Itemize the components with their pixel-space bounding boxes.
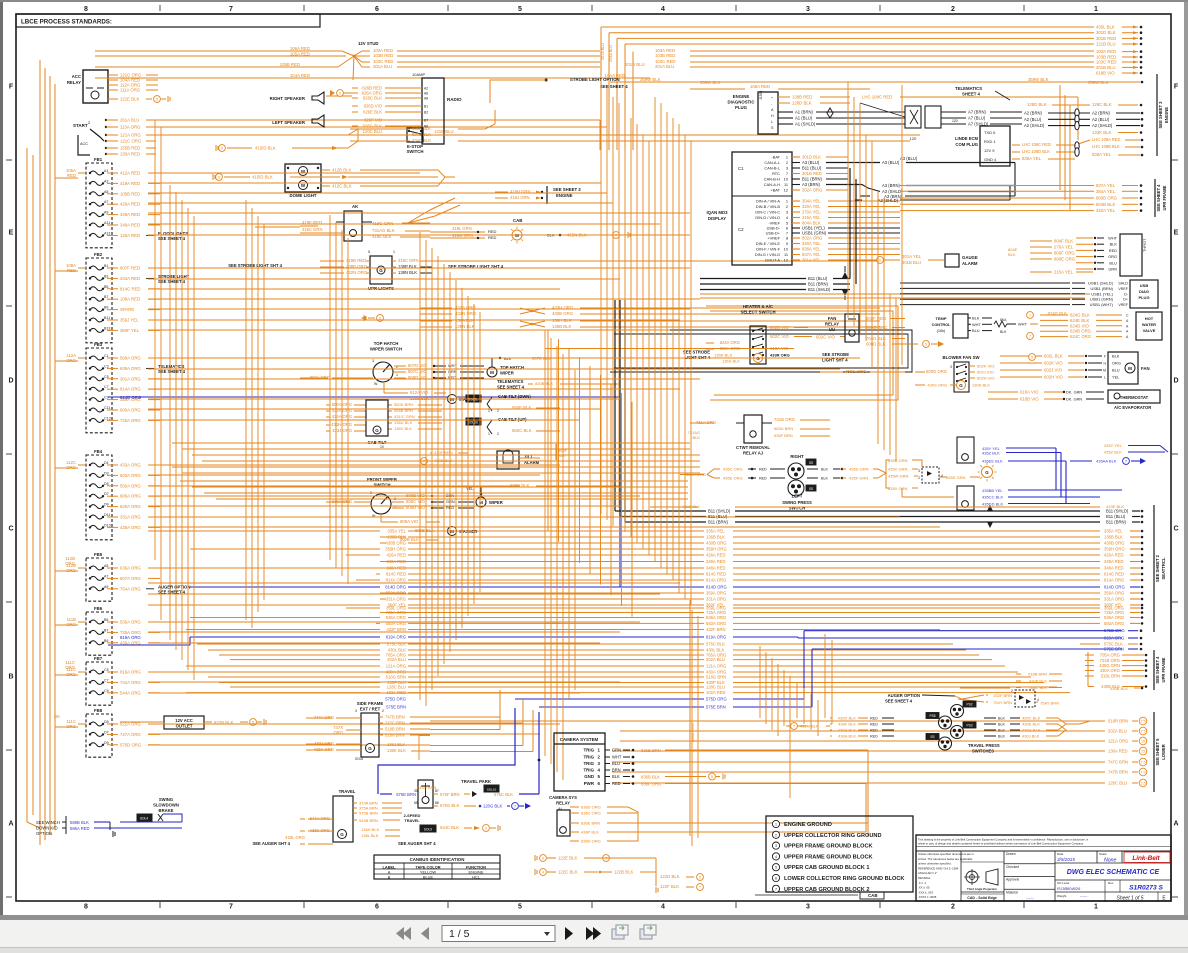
svg-text:LHC 108C RED: LHC 108C RED <box>1022 142 1051 147</box>
svg-text:A2 (BRN): A2 (BRN) <box>1092 111 1111 116</box>
svg-text:C11: C11 <box>104 406 110 410</box>
svg-text:419E BLK: 419E BLK <box>1106 504 1124 509</box>
svg-text:432F BRN: 432F BRN <box>386 627 406 632</box>
svg-text:430G BLK: 430G BLK <box>1022 728 1041 733</box>
svg-text:------: ------ <box>1026 896 1034 900</box>
svg-text:12V 9: 12V 9 <box>984 148 995 153</box>
svg-text:3: 3 <box>918 469 920 473</box>
svg-text:SEE SHEET 5: SEE SHEET 5 <box>1155 738 1160 766</box>
svg-text:106A RED: 106A RED <box>290 46 310 51</box>
svg-text:C3: C3 <box>104 364 109 368</box>
svg-text:UPR FRAME: UPR FRAME <box>1161 657 1166 682</box>
svg-text:GRN: GRN <box>612 748 621 753</box>
svg-text:575D ORG: 575D ORG <box>120 742 142 747</box>
svg-text:VREF: VREF <box>1118 287 1128 291</box>
svg-text:836E BRN: 836E BRN <box>641 748 661 753</box>
svg-text:331A ORG: 331A ORG <box>120 515 141 520</box>
svg-text:7: 7 <box>1125 460 1127 464</box>
svg-text:G: G <box>959 383 963 388</box>
svg-text:B7: B7 <box>104 295 108 299</box>
svg-text:261A BLU: 261A BLU <box>120 118 139 123</box>
svg-text:5: 5 <box>218 176 220 180</box>
svg-text:B9: B9 <box>104 639 108 643</box>
svg-text:518R BRN: 518R BRN <box>1108 719 1128 724</box>
svg-text:438P BLK: 438P BLK <box>581 830 599 835</box>
svg-text:518B BRN: 518B BRN <box>1028 672 1047 677</box>
svg-text:BLK: BLK <box>558 453 566 458</box>
svg-text:ALARM: ALARM <box>962 261 978 266</box>
svg-text:ORG: ORG <box>1112 361 1121 366</box>
svg-text:PS3: PS3 <box>966 724 972 728</box>
svg-text:8KA: 8KA <box>1000 318 1007 322</box>
svg-text:754Y BRN: 754Y BRN <box>993 700 1012 705</box>
svg-text:A3 (BRN): A3 (BRN) <box>802 182 821 187</box>
svg-text:731A ORG: 731A ORG <box>120 680 141 685</box>
svg-text:128C BLU: 128C BLU <box>1108 781 1127 786</box>
svg-text:DIN-D / VIN-D: DIN-D / VIN-D <box>755 215 780 220</box>
svg-text:747A ORG: 747A ORG <box>120 732 141 737</box>
svg-text:435F GRN: 435F GRN <box>849 476 868 481</box>
svg-text:602H VIO: 602H VIO <box>977 376 995 381</box>
svg-text:435EE BLK: 435EE BLK <box>982 459 1003 464</box>
svg-text:B11 (BRN): B11 (BRN) <box>802 177 823 182</box>
svg-text:602C VIO: 602C VIO <box>816 335 836 340</box>
svg-text:814C RED: 814C RED <box>706 572 726 577</box>
svg-text:BLK: BLK <box>1110 242 1118 247</box>
svg-text:CAN-B-L: CAN-B-L <box>764 166 780 171</box>
svg-text:BRAKE: BRAKE <box>159 808 174 813</box>
svg-text:518A BRN: 518A BRN <box>385 733 405 738</box>
svg-text:125A RED: 125A RED <box>120 233 140 238</box>
svg-text:UPPER CAB GROUND BLOCK 1: UPPER CAB GROUND BLOCK 1 <box>784 865 869 871</box>
svg-text:430P BLK: 430P BLK <box>1029 679 1047 684</box>
svg-text:575C BLK: 575C BLK <box>494 792 513 797</box>
svg-text:FB1: FB1 <box>94 157 103 162</box>
svg-text:FB5: FB5 <box>94 552 103 557</box>
svg-text:SEE SHEET 4: SEE SHEET 4 <box>158 236 186 241</box>
svg-text:A2 (BRN): A2 (BRN) <box>1024 111 1043 116</box>
svg-text:SS: SS <box>809 487 813 491</box>
svg-text:DOWN K/O: DOWN K/O <box>36 826 58 831</box>
svg-text:122C BLK: 122C BLK <box>558 870 578 875</box>
svg-text:GRN: GRN <box>448 369 457 374</box>
svg-text:747B BRN: 747B BRN <box>1108 770 1128 775</box>
svg-text:.XXX ± .003: .XXX ± .003 <box>918 890 933 894</box>
svg-text:415/D BLK: 415/D BLK <box>255 146 276 151</box>
svg-text:SOL3U: SOL3U <box>468 421 479 425</box>
svg-text:607E BLK: 607E BLK <box>412 132 431 137</box>
svg-text:128C BLK: 128C BLK <box>1092 102 1112 107</box>
svg-text:136U BLK: 136U BLK <box>394 420 413 425</box>
svg-text:575C BLK: 575C BLK <box>387 642 406 647</box>
svg-text:128D BLK: 128D BLK <box>792 101 812 106</box>
svg-text:2: 2 <box>497 409 499 413</box>
svg-text:838A YEL: 838A YEL <box>802 247 821 252</box>
svg-text:550A ORG: 550A ORG <box>120 483 141 488</box>
svg-text:419L GRN: 419L GRN <box>452 226 472 231</box>
svg-text:B: B <box>388 875 391 880</box>
svg-text:606E BLK: 606E BLK <box>412 126 431 131</box>
svg-text:607A ORG: 607A ORG <box>120 576 141 581</box>
svg-text:ENGINE GROUND: ENGINE GROUND <box>784 822 832 828</box>
svg-text:WHT: WHT <box>1108 236 1117 241</box>
svg-text:838A YEL: 838A YEL <box>1092 152 1112 157</box>
svg-text:15: 15 <box>1141 750 1145 754</box>
svg-text:J1939: J1939 <box>759 91 763 100</box>
svg-text:620A ORG: 620A ORG <box>120 504 141 509</box>
svg-text:SIDE FRAME: SIDE FRAME <box>357 701 384 706</box>
svg-text:+VREF: +VREF <box>767 236 780 241</box>
svg-text:FAN: FAN <box>1141 366 1150 371</box>
svg-text:435AA BLK: 435AA BLK <box>1096 459 1117 464</box>
svg-text:1: 1 <box>1094 904 1098 911</box>
svg-text:430A BLK: 430A BLK <box>838 734 856 739</box>
svg-text:LEFT SPEAKER: LEFT SPEAKER <box>272 120 306 125</box>
svg-text:A3 (BLU): A3 (BLU) <box>900 156 918 161</box>
svg-text:2.5: 2.5 <box>1141 782 1146 786</box>
svg-text:SWITCHES: SWITCHES <box>972 749 994 754</box>
svg-text:636D ORG: 636D ORG <box>581 805 601 810</box>
svg-text:624G BLK: 624G BLK <box>1048 311 1068 316</box>
svg-text:LHC 108D BLK: LHC 108D BLK <box>1022 149 1050 154</box>
svg-text:WHT: WHT <box>972 322 981 327</box>
svg-text:15: 15 <box>1141 740 1145 744</box>
svg-text:6: 6 <box>542 857 544 861</box>
svg-text:202A BLU: 202A BLU <box>1108 729 1127 734</box>
svg-text:LOWER: LOWER <box>1161 744 1166 760</box>
svg-text:SEE SHEET 3: SEE SHEET 3 <box>1158 101 1163 129</box>
svg-text:SPARE: SPARE <box>120 307 134 312</box>
svg-text:348A RED: 348A RED <box>1104 566 1124 571</box>
svg-text:618B VIO: 618B VIO <box>1020 397 1039 402</box>
svg-text:G: G <box>985 470 989 475</box>
svg-text:PWR: PWR <box>584 781 595 786</box>
svg-text:A2: A2 <box>424 87 428 91</box>
svg-text:819A ORG: 819A ORG <box>120 635 141 640</box>
svg-text:435U GRN: 435U GRN <box>888 458 908 463</box>
svg-text:FB7: FB7 <box>94 656 103 661</box>
svg-text:814A ORG: 814A ORG <box>120 387 141 392</box>
svg-text:B: B <box>8 674 13 681</box>
svg-text:838A YEL: 838A YEL <box>1022 156 1042 161</box>
svg-text:CAMERA SYSTEM: CAMERA SYSTEM <box>560 737 599 742</box>
svg-text:536A ORG: 536A ORG <box>120 620 141 625</box>
svg-text:435C ORG: 435C ORG <box>723 467 743 472</box>
svg-text:430B BLK: 430B BLK <box>1110 686 1128 691</box>
svg-text:SWITCH: SWITCH <box>407 149 424 154</box>
svg-text:1: 1 <box>786 155 788 160</box>
svg-text:104A RED: 104A RED <box>290 73 310 78</box>
svg-text:3: 3 <box>786 210 788 215</box>
svg-text:CTWT REMOVAL: CTWT REMOVAL <box>736 445 770 450</box>
svg-text:FB2: FB2 <box>94 252 103 257</box>
svg-text:SO Level: SO Level <box>1057 881 1070 885</box>
svg-text:430L BLK: 430L BLK <box>1030 685 1048 690</box>
svg-text:433L ORG: 433L ORG <box>285 835 305 840</box>
svg-text:A3: A3 <box>104 179 108 183</box>
svg-text:331A ORG: 331A ORG <box>706 597 726 602</box>
svg-text:UPPER FRAME GROUND BLOCK: UPPER FRAME GROUND BLOCK <box>784 854 873 860</box>
svg-text:LHC 108C RED: LHC 108C RED <box>862 95 892 100</box>
svg-text:120: 120 <box>952 119 958 123</box>
svg-text:11: 11 <box>784 182 788 187</box>
svg-text:575D ORG: 575D ORG <box>385 697 406 702</box>
svg-text:RED: RED <box>67 173 76 178</box>
svg-text:503A ORG: 503A ORG <box>120 473 141 478</box>
svg-text:602J VIO: 602J VIO <box>1044 368 1063 373</box>
svg-text:AK: AK <box>352 204 359 209</box>
svg-text:C: C <box>8 526 13 533</box>
svg-text:435BB YEL: 435BB YEL <box>982 488 1003 493</box>
svg-text:202A BLU: 202A BLU <box>387 657 406 662</box>
svg-text:TRIG: TRIG <box>584 748 595 753</box>
svg-text:TELEMATICS: TELEMATICS <box>955 86 982 91</box>
svg-text:WATER: WATER <box>1142 322 1156 327</box>
svg-text:602J VIO: 602J VIO <box>977 370 994 375</box>
svg-text:836D ORG: 836D ORG <box>581 839 601 844</box>
svg-text:536A ORG: 536A ORG <box>706 615 726 620</box>
svg-text:7: 7 <box>1029 314 1031 318</box>
svg-text:103B RED: 103B RED <box>655 53 675 58</box>
svg-text:120C BLU: 120C BLU <box>363 129 382 134</box>
svg-text:800B ORG: 800B ORG <box>1096 196 1118 201</box>
svg-text:602B VIO: 602B VIO <box>770 325 789 330</box>
svg-text:ORG: ORG <box>333 730 343 735</box>
svg-text:TEMP: TEMP <box>935 316 946 321</box>
svg-text:348A RED: 348A RED <box>120 223 140 228</box>
svg-text:Scale: Scale <box>1099 852 1107 856</box>
svg-text:575G BLK: 575G BLK <box>440 803 460 808</box>
svg-text:A: A <box>8 821 13 828</box>
svg-text:138H BLK: 138H BLK <box>552 318 572 323</box>
svg-text:348A RED: 348A RED <box>706 566 726 571</box>
svg-text:TOP HATCH: TOP HATCH <box>374 341 399 346</box>
svg-text:ANGULAR ± 1°: ANGULAR ± 1° <box>918 871 937 875</box>
svg-text:A7: A7 <box>104 200 108 204</box>
svg-text:819A ORG: 819A ORG <box>386 635 406 640</box>
svg-text:624E BLK: 624E BLK <box>1070 318 1089 323</box>
svg-text:A/C EVAPORATOR: A/C EVAPORATOR <box>1114 405 1151 410</box>
svg-text:RED: RED <box>870 717 878 721</box>
svg-text:A2 (BLU): A2 (BLU) <box>1024 117 1042 122</box>
svg-text:C13: C13 <box>104 416 111 420</box>
svg-text:RED: RED <box>759 468 767 472</box>
svg-text:BLU: BLU <box>1112 368 1120 373</box>
svg-text:201B BLU: 201B BLU <box>625 62 645 67</box>
svg-text:7.5: 7.5 <box>1141 730 1146 734</box>
svg-text:TXD 6: TXD 6 <box>984 130 996 135</box>
svg-text:624D VIO: 624D VIO <box>1070 323 1090 328</box>
svg-text:5: 5 <box>518 6 522 13</box>
svg-text:302A ORG: 302A ORG <box>802 188 822 193</box>
svg-text:B11 (BLU): B11 (BLU) <box>1106 514 1126 519</box>
svg-text:7: 7 <box>229 6 233 13</box>
svg-text:618B VIO: 618B VIO <box>1096 71 1115 76</box>
svg-text:304A YEL: 304A YEL <box>802 199 821 204</box>
svg-text:LIGHT SHT 4: LIGHT SHT 4 <box>684 355 710 360</box>
svg-text:A3 (SHLD): A3 (SHLD) <box>878 198 899 203</box>
svg-text:FB3: FB3 <box>94 342 103 347</box>
svg-text:Approval: Approval <box>1006 878 1019 882</box>
svg-text:B3: B3 <box>104 274 108 278</box>
svg-text:359W BLK: 359W BLK <box>1088 80 1109 85</box>
svg-text:7: 7 <box>423 460 425 464</box>
svg-text:518G BRN: 518G BRN <box>386 675 406 680</box>
svg-text:359W BLK: 359W BLK <box>640 77 661 82</box>
svg-text:122F BLK: 122F BLK <box>660 884 679 889</box>
svg-text:575D ORG: 575D ORG <box>706 697 727 702</box>
svg-text:B11: B11 <box>104 316 110 320</box>
svg-text:802A ORG: 802A ORG <box>802 236 822 241</box>
svg-text:C5: C5 <box>104 375 109 379</box>
svg-text:+BAT: +BAT <box>770 188 780 193</box>
svg-text:SOL9: SOL9 <box>424 828 432 832</box>
svg-text:L: L <box>1104 376 1106 380</box>
svg-text:7: 7 <box>615 234 617 238</box>
svg-text:103C RED: 103C RED <box>1096 60 1117 65</box>
svg-text:DWG ELEC SCHEMATIC CE: DWG ELEC SCHEMATIC CE <box>1067 869 1160 876</box>
svg-text:136R BLK: 136R BLK <box>714 353 733 358</box>
svg-text:Unless otherwise specified dim: Unless otherwise specified dimensions ar… <box>918 852 974 856</box>
svg-text:SHEET 4: SHEET 4 <box>962 92 981 97</box>
svg-text:A1 (SHLD): A1 (SHLD) <box>795 122 816 127</box>
svg-text:731AG BLK: 731AG BLK <box>372 228 395 233</box>
svg-text:7: 7 <box>786 171 788 176</box>
svg-text:1: 1 <box>393 250 395 254</box>
svg-text:D: D <box>8 378 13 385</box>
svg-text:731B ORG: 731B ORG <box>774 417 796 422</box>
svg-text:G: G <box>375 428 379 433</box>
svg-text:.XX ± .05: .XX ± .05 <box>918 886 930 890</box>
svg-text:VALVE: VALVE <box>1143 328 1156 333</box>
svg-text:BLK: BLK <box>692 435 700 440</box>
svg-text:8: 8 <box>84 6 88 13</box>
svg-text:430B ORG: 430B ORG <box>706 541 726 546</box>
svg-text:202A BLU: 202A BLU <box>706 657 725 662</box>
svg-text:BLOWER FAN SW: BLOWER FAN SW <box>943 355 981 360</box>
svg-text:BLK: BLK <box>998 717 1006 721</box>
svg-text:575D ORG: 575D ORG <box>1104 628 1125 633</box>
svg-text:138N BLK: 138N BLK <box>398 270 417 275</box>
svg-text:IQAN MD3: IQAN MD3 <box>706 210 728 215</box>
svg-text:A1: A1 <box>104 169 108 173</box>
svg-text:C7: C7 <box>104 385 109 389</box>
svg-text:B11 (BRN): B11 (BRN) <box>1106 520 1127 525</box>
svg-text:G: G <box>379 268 383 273</box>
svg-text:814D ORG: 814D ORG <box>706 585 727 590</box>
svg-text:YEL: YEL <box>1112 375 1120 380</box>
svg-text:800A ORG: 800A ORG <box>720 346 740 351</box>
svg-text:6: 6 <box>375 6 379 13</box>
svg-text:320A YEL: 320A YEL <box>1096 208 1116 213</box>
svg-text:301A YEL: 301A YEL <box>902 254 922 259</box>
svg-text:602C VIO: 602C VIO <box>770 334 790 339</box>
svg-text:430B ORG: 430B ORG <box>552 311 574 316</box>
svg-text:133K BLK: 133K BLK <box>1092 130 1111 135</box>
svg-text:800F ORG: 800F ORG <box>1054 251 1075 256</box>
svg-text:75AY BRN: 75AY BRN <box>1040 701 1059 706</box>
svg-text:747C BRN: 747C BRN <box>1108 760 1128 765</box>
svg-text:E: E <box>1174 230 1179 237</box>
svg-text:120: 120 <box>910 136 917 141</box>
svg-text:RIGHT SPEAKER: RIGHT SPEAKER <box>270 96 306 101</box>
svg-text:BRN: BRN <box>612 768 621 773</box>
svg-text:RED: RED <box>1109 248 1117 253</box>
svg-text:201A BLU: 201A BLU <box>373 64 392 69</box>
svg-text:RTC: RTC <box>772 171 780 176</box>
svg-text:602F RED: 602F RED <box>866 316 886 321</box>
svg-text:DOUT-A: DOUT-A <box>765 258 780 263</box>
svg-text:WIPER: WIPER <box>489 500 503 505</box>
svg-text:7: 7 <box>699 886 701 890</box>
svg-text:583U BRN: 583U BRN <box>774 426 793 431</box>
svg-text:2: 2 <box>775 833 777 837</box>
svg-text:SEE AUGER SHT 4: SEE AUGER SHT 4 <box>252 841 290 846</box>
svg-text:BLK: BLK <box>998 735 1006 739</box>
svg-text:START: START <box>73 123 88 128</box>
svg-text:2: 2 <box>951 6 955 13</box>
svg-text:807C VIO: 807C VIO <box>408 369 428 374</box>
svg-text:B11 (BLU): B11 (BLU) <box>808 276 828 281</box>
svg-text:PS5: PS5 <box>929 714 935 718</box>
svg-text:D: D <box>1173 378 1178 385</box>
svg-text:120G BLK: 120G BLK <box>483 804 503 809</box>
svg-text:583A ORG: 583A ORG <box>706 621 726 626</box>
svg-text:435V GRN: 435V GRN <box>888 467 907 472</box>
svg-text:804B BLK: 804B BLK <box>1096 202 1115 207</box>
svg-text:435X GRN: 435X GRN <box>888 486 907 491</box>
svg-text:6: 6 <box>775 877 777 881</box>
svg-text:203A BLU: 203A BLU <box>609 45 613 62</box>
svg-text:SOL3L: SOL3L <box>468 398 478 402</box>
svg-text:5: 5 <box>156 98 158 102</box>
svg-text:USB1 (SHLD): USB1 (SHLD) <box>1088 281 1114 286</box>
svg-text:6: 6 <box>375 904 379 911</box>
svg-text:.XXXX ± .0005: .XXXX ± .0005 <box>918 895 937 899</box>
svg-text:3: 3 <box>806 6 810 13</box>
svg-text:CAB TILT (UP): CAB TILT (UP) <box>498 417 527 422</box>
svg-text:320A YEL: 320A YEL <box>802 241 821 246</box>
svg-text:THERMOSTAT: THERMOSTAT <box>1120 395 1149 400</box>
svg-text:TELEMATICS: TELEMATICS <box>497 379 524 384</box>
svg-text:TRAVEL: TRAVEL <box>404 818 420 823</box>
svg-text:unless otherwise specified.: unless otherwise specified. <box>918 862 952 866</box>
svg-text:359A ORG: 359A ORG <box>1104 591 1124 596</box>
svg-text:RED: RED <box>488 235 497 240</box>
svg-text:624C ORG: 624C ORG <box>1070 334 1092 339</box>
svg-text:FAN: FAN <box>828 316 837 321</box>
svg-text:UPPER CAB GROUND BLOCK 2: UPPER CAB GROUND BLOCK 2 <box>784 887 869 893</box>
svg-text:11: 11 <box>784 252 788 257</box>
svg-text:SWING: SWING <box>159 797 173 802</box>
svg-text:3: 3 <box>372 359 374 363</box>
svg-text:B7: B7 <box>424 119 428 123</box>
svg-text:301B RED: 301B RED <box>1096 36 1116 41</box>
svg-text:575B BRN: 575B BRN <box>359 811 378 816</box>
svg-text:8: 8 <box>786 236 788 241</box>
svg-text:320A YEL: 320A YEL <box>802 204 821 209</box>
svg-text:5: 5 <box>368 250 370 254</box>
svg-text:704G BLK: 704G BLK <box>866 336 886 341</box>
svg-text:D7: D7 <box>104 730 109 734</box>
svg-text:430B ORG: 430B ORG <box>386 541 406 546</box>
svg-text:A3 (BRN): A3 (BRN) <box>882 183 901 188</box>
svg-text:136B BLK: 136B BLK <box>706 535 725 540</box>
svg-text:121A ORG: 121A ORG <box>120 133 141 138</box>
svg-text:LINDE ECM: LINDE ECM <box>955 136 979 141</box>
svg-text:RED: RED <box>870 729 878 733</box>
svg-text:361A YEL: 361A YEL <box>802 258 821 263</box>
